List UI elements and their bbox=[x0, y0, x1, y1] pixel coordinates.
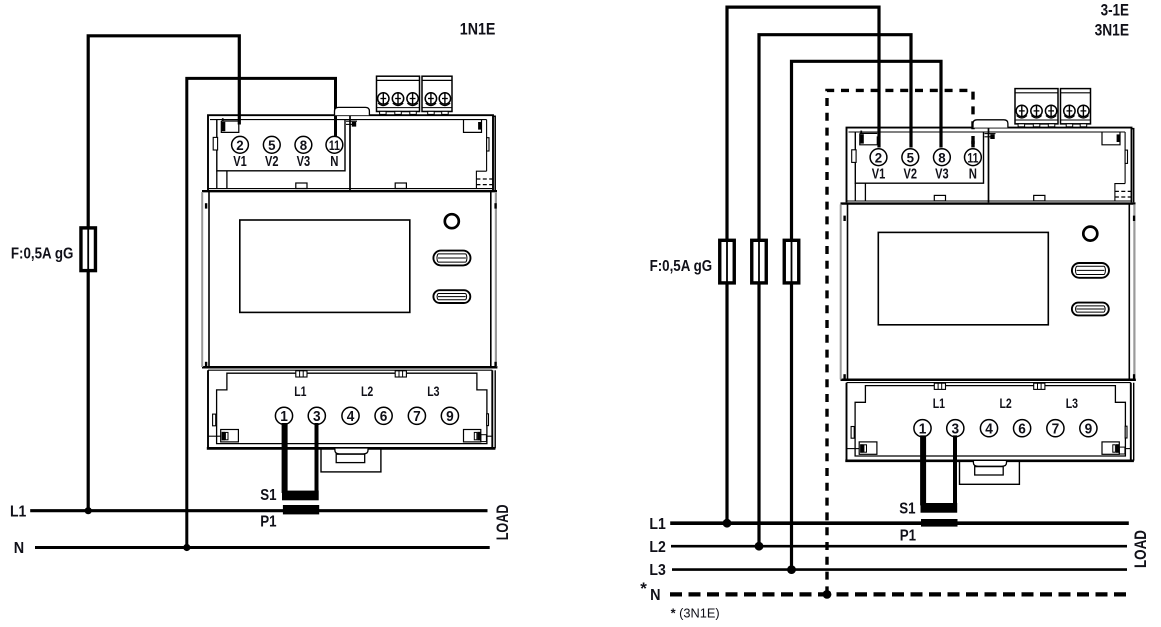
svg-text:L1: L1 bbox=[10, 503, 26, 520]
aux terminal block 1 bbox=[377, 76, 420, 111]
top-left clip housing bbox=[221, 121, 239, 132]
CT P1 bar (right) bbox=[921, 519, 958, 527]
screw at x=444.9 bbox=[439, 93, 450, 106]
svg-text:LOAD: LOAD bbox=[494, 504, 512, 540]
screw at x=398.0 bbox=[392, 93, 403, 106]
svg-text:L1: L1 bbox=[649, 516, 665, 533]
svg-text:V2: V2 bbox=[265, 153, 279, 170]
terminal box channel bbox=[854, 183, 856, 201]
divider top connector detail bbox=[985, 133, 996, 135]
top cover bottom notch 1 bbox=[296, 183, 307, 189]
svg-text:2: 2 bbox=[875, 149, 883, 165]
bottom cover grille 2 bbox=[395, 371, 406, 377]
meter bottom cover outline bbox=[847, 383, 1131, 461]
wire L1 to terminal 2 (left diagram) bbox=[88, 36, 239, 511]
bottom-left clip housing bbox=[221, 430, 239, 442]
top cover bottom notch 1 bbox=[934, 195, 945, 201]
svg-text:3: 3 bbox=[952, 421, 960, 437]
wire L2 to terminal 5 (right diagram) bbox=[759, 35, 911, 547]
top cover bottom notch 2 bbox=[1034, 195, 1045, 201]
wire N to terminal 11 (left diagram) bbox=[187, 78, 336, 547]
CT S1 bar (left) bbox=[282, 491, 319, 501]
aux terminal block 1 bbox=[1015, 89, 1058, 124]
svg-text:V2: V2 bbox=[904, 165, 918, 182]
front button bbox=[445, 214, 459, 228]
svg-text:6: 6 bbox=[1018, 421, 1026, 437]
svg-text:L1: L1 bbox=[933, 395, 945, 411]
terminal 4 bbox=[342, 407, 359, 424]
svg-text:P1: P1 bbox=[260, 513, 276, 530]
bottom-right step and dashed detail bbox=[476, 171, 486, 188]
svg-text:N: N bbox=[650, 587, 660, 604]
screw at x=444.9 bbox=[1078, 105, 1089, 118]
terminal 9 bbox=[1080, 420, 1097, 437]
svg-text:5: 5 bbox=[268, 137, 276, 153]
terminal 4 bbox=[980, 420, 997, 437]
svg-text:11: 11 bbox=[329, 137, 340, 153]
screw at x=412.6 bbox=[1045, 105, 1056, 118]
terminal 3 bbox=[308, 407, 325, 424]
svg-text:L3: L3 bbox=[1066, 395, 1078, 411]
terminal 1 bbox=[914, 420, 931, 437]
meter top cover inner top line bbox=[210, 119, 487, 121]
terminal 9 bbox=[441, 407, 458, 424]
svg-text:V3: V3 bbox=[297, 153, 311, 170]
top cover divider bbox=[349, 115, 351, 190]
bottom cover inner box with corner notches bbox=[217, 373, 487, 443]
junction dot L3 (right) bbox=[787, 565, 796, 574]
screw at x=412.6 bbox=[407, 93, 418, 106]
meter (left) bbox=[202, 76, 497, 472]
svg-text:9: 9 bbox=[1085, 421, 1093, 437]
terminal 6 bbox=[1014, 420, 1031, 437]
svg-text:9: 9 bbox=[446, 409, 454, 425]
svg-text:L2: L2 bbox=[361, 383, 373, 399]
junction dot L1 (right) bbox=[723, 519, 732, 528]
svg-text:L3: L3 bbox=[427, 383, 439, 399]
terminal box channel bbox=[216, 171, 218, 189]
voltage terminal box bbox=[855, 132, 983, 183]
terminal 1 bbox=[275, 407, 292, 424]
svg-text:S1: S1 bbox=[260, 487, 276, 504]
svg-text:5: 5 bbox=[907, 149, 915, 165]
top tab bbox=[973, 120, 1008, 128]
svg-text:2: 2 bbox=[236, 137, 244, 153]
svg-text:4: 4 bbox=[985, 421, 993, 437]
svg-text:* (3N1E): * (3N1E) bbox=[671, 605, 720, 620]
screw at x=430.9 bbox=[425, 93, 436, 106]
push button 1 bbox=[1072, 263, 1109, 278]
svg-text:V1: V1 bbox=[233, 153, 247, 170]
svg-text:8: 8 bbox=[938, 149, 946, 165]
fuse F3 (right diagram) bbox=[784, 240, 799, 283]
top-right clip black bar bbox=[1117, 134, 1120, 142]
bottom cover right slot bbox=[487, 414, 489, 426]
bottom cover grille 1 bbox=[934, 383, 945, 389]
top-right clip housing bbox=[464, 120, 482, 133]
svg-text:V1: V1 bbox=[872, 165, 886, 182]
line N (left) bbox=[35, 546, 490, 549]
junction dot N (left) bbox=[183, 544, 190, 551]
junction dot N (right) bbox=[823, 590, 832, 599]
top cover right slot bbox=[1125, 150, 1127, 163]
aux terminal block 2 bbox=[1061, 89, 1091, 124]
bottom-left clip housing bbox=[859, 442, 877, 454]
divider top connector detail bbox=[346, 120, 357, 122]
svg-text:3: 3 bbox=[313, 409, 321, 425]
CT S1 bar (right) bbox=[921, 503, 958, 513]
terminal 7 bbox=[1047, 420, 1064, 437]
svg-text:L3: L3 bbox=[649, 562, 665, 579]
line L2 (right) bbox=[671, 545, 1127, 548]
svg-text:11: 11 bbox=[967, 149, 978, 165]
top-right clip housing bbox=[1102, 132, 1120, 145]
bottom-right clip housing bbox=[464, 430, 481, 442]
svg-text:1N1E: 1N1E bbox=[460, 19, 496, 38]
bottom-right clip housing bbox=[1102, 442, 1119, 454]
fuse F 0,5A gG (left diagram) bbox=[81, 228, 96, 271]
wire L3 to terminal 8 (right diagram) bbox=[792, 61, 942, 569]
CT wire to terminal 3 (right) bbox=[953, 435, 957, 505]
svg-text:F:0,5A gG: F:0,5A gG bbox=[11, 245, 74, 262]
svg-text:LOAD: LOAD bbox=[1132, 530, 1150, 568]
bottom-right step and dashed detail bbox=[1115, 184, 1125, 201]
terminal 6 bbox=[375, 407, 392, 424]
svg-text:1: 1 bbox=[919, 421, 927, 437]
fuse F2 (right diagram) bbox=[752, 240, 767, 283]
svg-text:P1: P1 bbox=[900, 527, 916, 544]
junction dot L1/fuse (left) bbox=[85, 507, 92, 514]
CT P1 bar (left) bbox=[283, 505, 319, 514]
svg-text:N: N bbox=[330, 153, 338, 170]
top cover left slot bbox=[852, 150, 856, 163]
svg-text:S1: S1 bbox=[899, 501, 915, 518]
top-left clip housing bbox=[860, 133, 878, 144]
top cover right slot bbox=[487, 138, 489, 151]
DIN rail clip bbox=[321, 448, 381, 472]
meter body sides bbox=[847, 204, 849, 380]
terminal 5 (V2) bbox=[263, 136, 280, 153]
CT secondary wire S1 to terminal 1 (right) bbox=[920, 435, 926, 505]
screw at x=383.3 bbox=[378, 93, 389, 106]
bottom cover left slot bbox=[851, 427, 854, 439]
bottom cover left slot bbox=[213, 414, 216, 426]
terminal 2 (V1) bbox=[870, 149, 887, 166]
terminal 8 (V3) bbox=[934, 149, 951, 166]
push button 1 bbox=[433, 251, 470, 266]
svg-text:6: 6 bbox=[380, 409, 388, 425]
LCD display bbox=[878, 232, 1048, 324]
voltage terminal box bbox=[217, 120, 345, 171]
svg-text:7: 7 bbox=[413, 409, 421, 425]
top-left clip black bar bbox=[222, 122, 226, 131]
front button bbox=[1083, 227, 1097, 241]
top-right clip black bar bbox=[478, 122, 481, 130]
svg-text:8: 8 bbox=[300, 137, 308, 153]
svg-text:*: * bbox=[640, 579, 647, 598]
svg-text:L1: L1 bbox=[294, 383, 306, 399]
top cover divider bbox=[988, 128, 990, 203]
bottom cover grille 1 bbox=[296, 371, 307, 377]
meter top cover outline bbox=[847, 128, 1132, 203]
push button 2 bbox=[1072, 303, 1109, 316]
meter top cover inner top line bbox=[849, 131, 1126, 133]
bottom cover inner box with corner notches bbox=[855, 386, 1125, 456]
meter body bottom band bbox=[202, 366, 497, 369]
top cover inner right line bbox=[1124, 132, 1126, 184]
svg-text:N: N bbox=[14, 540, 24, 557]
terminal 11 (N) bbox=[326, 136, 343, 153]
terminal 11 (N) bbox=[965, 149, 982, 166]
meter (right) bbox=[841, 89, 1136, 485]
LCD display bbox=[240, 220, 410, 312]
bottom cover grille 2 bbox=[1034, 383, 1045, 389]
meter body sides bbox=[208, 191, 210, 367]
svg-text:L2: L2 bbox=[649, 539, 665, 556]
svg-text:F:0,5A gG: F:0,5A gG bbox=[650, 258, 713, 275]
fuse F1 (right diagram) bbox=[720, 240, 735, 283]
svg-text:4: 4 bbox=[347, 409, 355, 425]
terminal 3 bbox=[947, 420, 964, 437]
svg-text:3N1E: 3N1E bbox=[1095, 22, 1129, 40]
bottom cover 3D edge bbox=[494, 370, 496, 448]
push button 2 bbox=[433, 290, 470, 303]
line L1 (right) bbox=[670, 521, 1129, 525]
meter top cover outline bbox=[208, 115, 493, 190]
top-left clip black bar bbox=[860, 134, 864, 143]
meter top cover 3D edge bbox=[493, 116, 495, 190]
top cover inner right line bbox=[486, 120, 488, 172]
screw at x=430.9 bbox=[1064, 105, 1075, 118]
CT secondary wire S1 to terminal 1 (left) bbox=[282, 423, 288, 493]
svg-text:3-1E: 3-1E bbox=[1101, 1, 1129, 19]
svg-text:V3: V3 bbox=[935, 165, 949, 182]
junction dot L2 (right) bbox=[755, 542, 764, 551]
wire L1 to terminal 2 (right diagram) bbox=[727, 7, 879, 523]
meter bottom cover outline bbox=[208, 370, 492, 448]
terminal 8 (V3) bbox=[295, 136, 312, 153]
DIN rail clip bbox=[960, 461, 1020, 485]
screw at x=398.0 bbox=[1031, 105, 1042, 118]
line L1 (left) bbox=[30, 509, 487, 512]
svg-text:1: 1 bbox=[280, 409, 288, 425]
top tab bbox=[335, 107, 370, 115]
svg-text:7: 7 bbox=[1052, 421, 1060, 437]
svg-text:L2: L2 bbox=[999, 395, 1011, 411]
terminal 7 bbox=[408, 407, 425, 424]
terminal 2 (V1) bbox=[232, 136, 249, 153]
CT wire to terminal 3 (left) bbox=[315, 423, 319, 493]
meter body top band bbox=[847, 200, 1131, 202]
dashed line N (right) bbox=[670, 592, 1130, 596]
aux terminal block 2 bbox=[422, 76, 452, 111]
bottom cover right slot bbox=[1125, 426, 1127, 438]
terminal 5 (V2) bbox=[902, 149, 919, 166]
meter top cover 3D edge bbox=[1132, 129, 1134, 203]
top cover bottom notch 2 bbox=[395, 183, 406, 189]
dashed wire N to terminal 11 (right diagram) bbox=[827, 90, 973, 594]
bottom cover 3D edge bbox=[1133, 383, 1135, 461]
meter body bottom band bbox=[841, 378, 1136, 381]
screw at x=383.3 bbox=[1016, 105, 1027, 118]
line L3 (right) bbox=[672, 568, 1127, 571]
meter body top band bbox=[208, 188, 492, 190]
top cover left slot bbox=[213, 137, 217, 150]
svg-text:N: N bbox=[969, 165, 977, 182]
